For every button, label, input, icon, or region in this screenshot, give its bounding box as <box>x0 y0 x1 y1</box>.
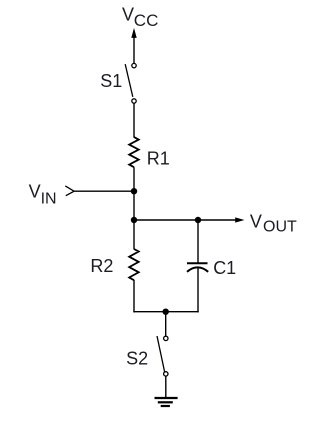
svg-text:V: V <box>122 5 134 25</box>
junction node C <box>195 217 201 223</box>
wire node D to S2 <box>165 312 167 337</box>
node VOUT label <box>250 212 297 236</box>
svg-text:R1: R1 <box>147 148 170 168</box>
switch S1 <box>125 63 136 103</box>
junction node A <box>131 188 137 194</box>
wire node B to R2 <box>133 220 135 249</box>
wire node C to C1 <box>197 220 199 263</box>
svg-text:S1: S1 <box>100 71 122 91</box>
port VIN connector <box>65 186 74 196</box>
svg-text:CC: CC <box>134 11 159 30</box>
node VCC label <box>122 5 158 30</box>
svg-text:V: V <box>250 212 262 232</box>
wire node B to node C <box>134 219 198 221</box>
wire R1 to node A <box>133 167 135 220</box>
switch S2 <box>157 336 168 376</box>
svg-text:R2: R2 <box>90 256 113 276</box>
ground <box>155 398 178 406</box>
svg-text:C1: C1 <box>213 258 236 278</box>
svg-text:V: V <box>29 182 41 202</box>
wire VIN to node A <box>74 190 134 192</box>
svg-text:IN: IN <box>41 191 57 208</box>
svg-text:OUT: OUT <box>263 219 297 236</box>
junction node B <box>131 217 137 223</box>
resistor R1 <box>129 137 139 167</box>
wire bottom rail <box>133 311 198 313</box>
svg-text:S2: S2 <box>126 349 148 369</box>
node VIN label <box>29 182 57 208</box>
wire S1 to R1 <box>133 103 135 137</box>
resistor R2 <box>129 249 139 280</box>
junction node D (bottom rail) <box>163 309 169 315</box>
wire VOUT arrow (right) <box>198 217 245 222</box>
wire S2 to ground <box>165 376 167 397</box>
wire VCC arrow (up) <box>131 28 136 64</box>
wire R2 to bottom rail <box>133 280 135 312</box>
capacitor C1 <box>187 263 208 312</box>
